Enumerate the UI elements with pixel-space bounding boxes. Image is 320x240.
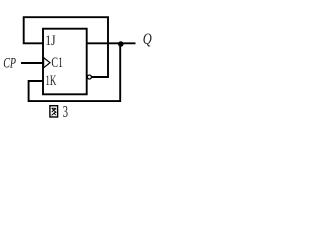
- svg-text:Q: Q: [143, 31, 152, 48]
- clock dynamic-input triangle at C1: [44, 58, 50, 68]
- figure caption glyph 图: [50, 106, 58, 117]
- svg-text:CP: CP: [3, 56, 16, 72]
- flip-flop U1 box: [43, 29, 87, 95]
- wire Q feedback loop to K input: [29, 43, 121, 101]
- junction dot on Q wire: [118, 41, 124, 47]
- wire Q output: [87, 42, 136, 44]
- svg-text:1J: 1J: [45, 33, 56, 49]
- svg-text:3: 3: [63, 102, 68, 121]
- inversion bubble on Qbar output: [87, 75, 91, 79]
- svg-text:1K: 1K: [45, 73, 56, 89]
- wire Qbar feedback loop to J input: [24, 17, 108, 77]
- svg-text:C1: C1: [51, 55, 63, 71]
- wire CP to clock input: [21, 62, 43, 64]
